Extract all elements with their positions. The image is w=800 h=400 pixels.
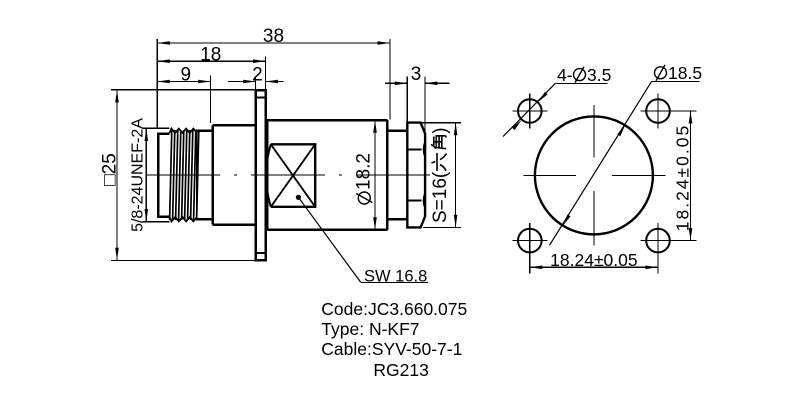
svg-text:3.5: 3.5 xyxy=(587,65,611,85)
dim 3 arrow left xyxy=(395,82,408,86)
dim 18.2 line xyxy=(374,120,376,230)
svg-text:18.5: 18.5 xyxy=(668,63,702,83)
svg-text:2: 2 xyxy=(252,65,263,86)
cylinder top edge xyxy=(267,119,388,122)
dim 4-3.5 underline xyxy=(555,82,607,84)
extension line bottom dim left xyxy=(529,224,531,274)
clamp box diagonal 1 xyxy=(271,144,315,207)
svg-text:4-: 4- xyxy=(557,65,573,85)
mounting hole bottom-left xyxy=(518,229,542,253)
hex nut facet line lower xyxy=(407,199,421,201)
dim 4-3.5 arrow lower xyxy=(512,120,522,130)
svg-text:Type: N-KF7: Type: N-KF7 xyxy=(321,319,419,339)
svg-text:Code:JC3.660.075: Code:JC3.660.075 xyxy=(321,299,467,319)
extension line right dim bottom xyxy=(672,240,697,242)
dim bottom 18.24 arrow right xyxy=(646,266,659,270)
dim S16 arrow top xyxy=(454,123,458,136)
dim right 18.24 arrow top xyxy=(689,111,693,124)
thread end vertical line xyxy=(196,130,198,221)
mounting hole top-left xyxy=(518,99,542,123)
dim 9 arrow left xyxy=(157,80,170,84)
cylinder bottom edge xyxy=(267,229,388,232)
dim 3 line right tail xyxy=(425,82,450,84)
dim 18.5 label xyxy=(655,63,703,83)
dim thread arrow bottom xyxy=(145,209,149,222)
leader SW16.8 underline xyxy=(361,281,428,283)
dim 38 arrow left xyxy=(157,41,170,45)
dim sq25 arrow top xyxy=(115,90,119,103)
step face of mid body xyxy=(211,125,214,224)
clamp box diagonal 2 xyxy=(271,144,315,207)
dim 9 line xyxy=(157,81,210,83)
mounting hole bottom-right crosshair xyxy=(641,223,676,258)
thread 5/8-24UNEF xyxy=(170,129,199,222)
extension line left end (38/18/9) xyxy=(156,39,158,129)
dim 18.5 arrow lower xyxy=(562,215,570,227)
clamp box outline xyxy=(266,144,315,207)
dim sq25 line xyxy=(116,90,118,260)
dim 18.2 label xyxy=(354,153,375,204)
flange face big circle xyxy=(535,116,653,234)
dim 38 arrow right xyxy=(378,41,391,45)
extension line thread dim top xyxy=(143,127,170,129)
flange corner line bottom xyxy=(256,252,266,254)
dim 3 line left tail xyxy=(385,82,407,84)
dim thread line xyxy=(145,129,147,222)
mounting hole bottom-right xyxy=(646,229,670,253)
dim 18 arrow left xyxy=(157,59,170,63)
dim S16 line xyxy=(455,123,457,228)
dim 3 arrow right xyxy=(425,82,438,86)
mid body bottom edge xyxy=(213,223,256,226)
leader SW16.8 dot xyxy=(296,195,301,200)
neck bottom edge xyxy=(389,218,407,221)
centerline left view axis xyxy=(146,174,452,176)
mounting hole top-left crosshair xyxy=(512,94,547,129)
dim bottom 18.24 line xyxy=(530,266,658,268)
neck top edge xyxy=(389,129,407,132)
cylinder left face xyxy=(267,120,269,230)
svg-text:SW 16.8: SW 16.8 xyxy=(364,267,427,285)
dim 4-3.5 leader line xyxy=(503,83,555,136)
big circle centerline horizontal xyxy=(524,174,666,176)
mid body top edge xyxy=(213,124,256,127)
dim 2 arrow left xyxy=(243,80,256,84)
barrel after thread bottom xyxy=(197,218,213,221)
extension line right dim top xyxy=(672,110,697,112)
dim 18 arrow right xyxy=(253,59,266,63)
extension line right of 38 xyxy=(389,39,391,120)
svg-text:5/8-24UNEF-2A: 5/8-24UNEF-2A xyxy=(130,118,147,232)
hex nut chamfer arc lower xyxy=(423,193,425,209)
dim 4-3.5 arrow upper xyxy=(538,92,548,102)
dim bottom 18.24 arrow left xyxy=(530,266,543,270)
big circle centerline vertical xyxy=(593,105,595,246)
extension line flange left up xyxy=(255,77,257,91)
svg-text:38: 38 xyxy=(263,26,284,47)
dim 18.5 leader line xyxy=(550,82,652,246)
dim 2 line left tail xyxy=(228,81,256,83)
left face of coupling nut xyxy=(157,134,160,217)
mounting hole top-right xyxy=(646,99,670,123)
extension line thread dim bottom xyxy=(143,221,170,223)
barrel after thread top xyxy=(197,130,213,133)
extension line nut right up xyxy=(424,77,426,134)
flange corner line top xyxy=(256,97,266,99)
hex nut facet line upper xyxy=(407,149,421,151)
svg-text:□25: □25 xyxy=(100,153,121,186)
svg-text:9: 9 xyxy=(181,65,192,86)
coupling nut top edge before thread xyxy=(157,132,169,135)
dim 18.2 arrow bottom xyxy=(373,217,377,230)
leader SW16.8 line xyxy=(298,197,360,282)
dim thread arrow top xyxy=(145,129,149,142)
svg-text:18.2: 18.2 xyxy=(354,153,375,190)
dim sq25 arrow bottom xyxy=(115,248,119,260)
dim 18.5 underline xyxy=(652,81,700,83)
dim 9 arrow right xyxy=(198,80,211,84)
svg-text:): ) xyxy=(430,127,451,133)
cylinder right face xyxy=(386,120,389,230)
extension line right of 9 xyxy=(210,75,212,123)
dim 38 line xyxy=(157,42,390,44)
dim 18.5 arrow upper xyxy=(617,125,625,137)
svg-text:18.24±0.05: 18.24±0.05 xyxy=(672,124,692,231)
extension line sq25 bottom xyxy=(111,259,255,261)
hex nut chamfer arc upper xyxy=(423,142,425,158)
dim right 18.24 arrow bottom xyxy=(689,228,693,241)
svg-text:18.24±0.05: 18.24±0.05 xyxy=(550,250,637,270)
svg-text:S=16(: S=16( xyxy=(430,171,451,223)
svg-text:Cable:SYV-50-7-1: Cable:SYV-50-7-1 xyxy=(321,339,462,359)
dim 4-3.5 label xyxy=(557,65,611,85)
hex nut outline xyxy=(407,123,425,228)
extension line S16 top xyxy=(408,122,461,124)
extension line flange right up xyxy=(265,57,267,91)
svg-text:3: 3 xyxy=(411,64,422,85)
mounting hole bottom-left crosshair xyxy=(512,223,547,258)
dim 18.2 arrow top xyxy=(373,120,377,133)
mounting hole top-right crosshair xyxy=(641,94,676,129)
dim right 18.24 line xyxy=(690,111,692,241)
dim S16 arrow bottom xyxy=(454,215,458,228)
extension line S16 bottom xyxy=(423,226,461,228)
extension line bottom dim right xyxy=(657,224,659,274)
dim 2 arrow right xyxy=(266,80,279,84)
dim 18 line xyxy=(157,60,265,62)
svg-text:18: 18 xyxy=(200,45,221,66)
dim 2 line right tail xyxy=(266,81,284,83)
svg-text:RG213: RG213 xyxy=(373,360,428,380)
dim S16 label xyxy=(430,127,451,223)
extension line sq25 top xyxy=(111,89,255,91)
flange outline xyxy=(256,90,266,260)
coupling nut bottom edge before thread xyxy=(157,215,169,218)
extension line nut left up xyxy=(406,77,408,123)
